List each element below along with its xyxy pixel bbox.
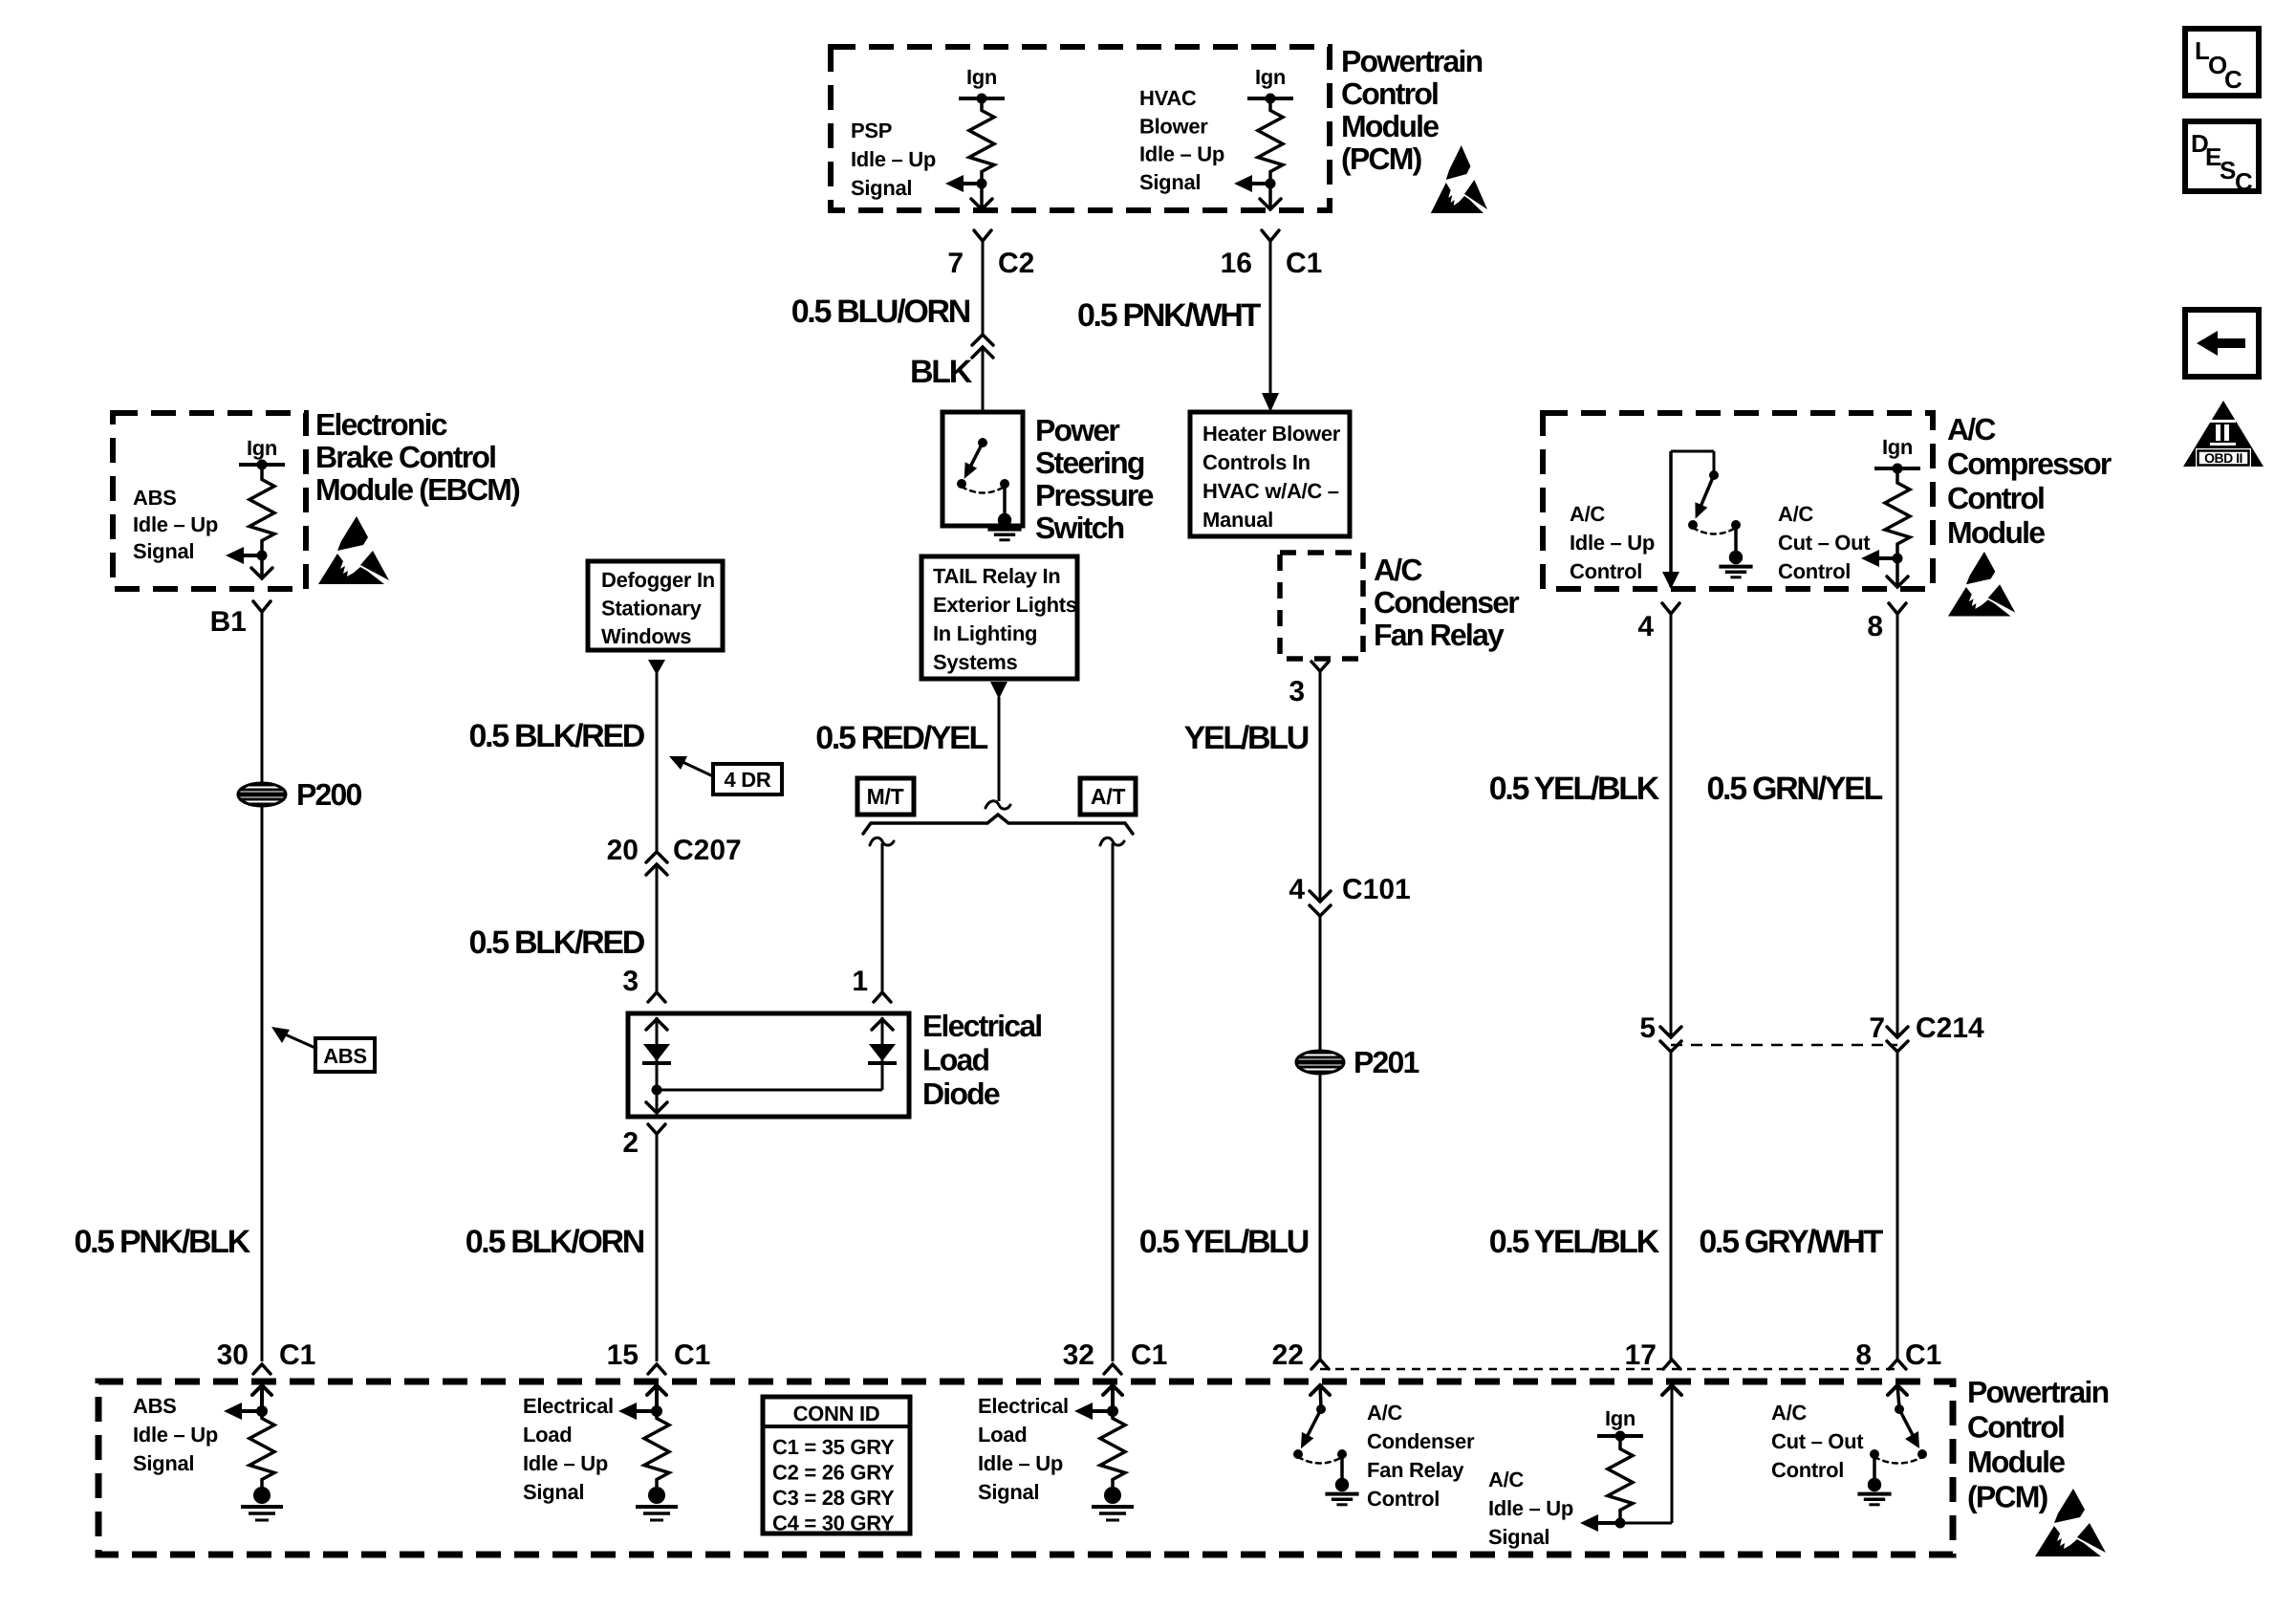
svg-text:Diode: Diode	[922, 1077, 1000, 1111]
svg-text:OBD II: OBD II	[2204, 450, 2242, 466]
svg-text:30: 30	[217, 1339, 249, 1371]
svg-text:8: 8	[1855, 1339, 1872, 1371]
svg-text:Load: Load	[978, 1423, 1027, 1447]
svg-text:3: 3	[622, 966, 639, 997]
svg-text:Blower: Blower	[1139, 114, 1208, 138]
svg-text:Controls In: Controls In	[1202, 450, 1310, 474]
svg-text:Idle – Up: Idle – Up	[133, 512, 218, 536]
svg-text:22: 22	[1272, 1339, 1304, 1371]
svg-text:(PCM): (PCM)	[1967, 1480, 2048, 1514]
svg-text:0.5 YEL/BLK: 0.5 YEL/BLK	[1489, 771, 1660, 807]
svg-text:A/C: A/C	[1374, 553, 1422, 587]
svg-text:Ign: Ign	[966, 65, 997, 89]
svg-text:15: 15	[607, 1339, 639, 1371]
svg-text:Cut – Out: Cut – Out	[1771, 1429, 1864, 1453]
svg-text:C1 = 35 GRY: C1 = 35 GRY	[772, 1435, 895, 1459]
svg-text:Signal: Signal	[133, 539, 194, 563]
svg-text:TAIL Relay In: TAIL Relay In	[933, 564, 1060, 588]
svg-text:C3 = 28 GRY: C3 = 28 GRY	[772, 1486, 895, 1510]
svg-text:Signal: Signal	[978, 1480, 1039, 1504]
svg-text:C1: C1	[279, 1339, 315, 1371]
svg-text:Signal: Signal	[1139, 170, 1201, 194]
svg-text:C101: C101	[1342, 874, 1411, 905]
svg-text:0.5 GRN/YEL: 0.5 GRN/YEL	[1706, 771, 1882, 807]
svg-text:Control: Control	[1947, 481, 2044, 515]
svg-text:Ign: Ign	[247, 436, 277, 460]
svg-text:Powertrain: Powertrain	[1341, 44, 1483, 78]
svg-text:Electrical: Electrical	[523, 1394, 614, 1418]
svg-text:Module (EBCM): Module (EBCM)	[315, 472, 520, 507]
svg-text:Manual: Manual	[1202, 508, 1273, 532]
svg-text:Fan Relay: Fan Relay	[1367, 1458, 1464, 1482]
svg-text:Brake Control: Brake Control	[315, 440, 495, 474]
svg-text:8: 8	[1867, 611, 1883, 642]
svg-text:0.5 BLK/RED: 0.5 BLK/RED	[468, 718, 644, 754]
svg-text:Compressor: Compressor	[1947, 446, 2112, 481]
svg-text:C2 = 26 GRY: C2 = 26 GRY	[772, 1461, 895, 1485]
svg-text:A/C: A/C	[1947, 412, 1996, 446]
svg-text:BLK: BLK	[910, 354, 973, 390]
svg-text:4: 4	[1289, 874, 1305, 905]
svg-text:Idle – Up: Idle – Up	[1488, 1496, 1573, 1520]
svg-text:C: C	[2224, 65, 2242, 94]
svg-text:4: 4	[1637, 611, 1654, 642]
svg-text:Load: Load	[922, 1043, 988, 1077]
svg-text:Idle – Up: Idle – Up	[523, 1451, 608, 1475]
svg-text:A/C: A/C	[1771, 1401, 1807, 1425]
svg-text:Load: Load	[523, 1423, 572, 1447]
svg-text:7: 7	[947, 248, 964, 279]
svg-text:ABS: ABS	[133, 486, 177, 510]
svg-text:Ign: Ign	[1605, 1406, 1635, 1430]
svg-text:HVAC w/A/C –: HVAC w/A/C –	[1202, 479, 1339, 503]
svg-text:0.5 YEL/BLU: 0.5 YEL/BLU	[1139, 1224, 1309, 1260]
svg-text:Ign: Ign	[1882, 435, 1913, 459]
svg-text:B1: B1	[210, 606, 247, 638]
svg-text:Control: Control	[1778, 559, 1851, 583]
svg-text:16: 16	[1221, 248, 1252, 279]
svg-text:PSP: PSP	[851, 119, 892, 142]
svg-text:(PCM): (PCM)	[1341, 141, 1422, 176]
svg-text:Power: Power	[1035, 413, 1119, 447]
svg-text:Control: Control	[1771, 1458, 1844, 1482]
svg-text:Idle – Up: Idle – Up	[1570, 531, 1655, 555]
svg-text:A/C: A/C	[1778, 502, 1813, 526]
svg-text:C: C	[2235, 167, 2253, 196]
svg-text:Stationary: Stationary	[601, 597, 703, 620]
svg-text:0.5 BLK/RED: 0.5 BLK/RED	[468, 925, 644, 961]
svg-text:A/T: A/T	[1091, 784, 1125, 809]
svg-text:P200: P200	[296, 777, 362, 812]
svg-text:Pressure: Pressure	[1035, 478, 1154, 512]
svg-text:Signal: Signal	[851, 176, 912, 200]
svg-text:Module: Module	[1947, 515, 2045, 550]
svg-text:Fan Relay: Fan Relay	[1374, 618, 1505, 652]
svg-text:Ign: Ign	[1255, 65, 1286, 89]
svg-text:Control: Control	[1570, 559, 1642, 583]
svg-text:C1: C1	[1131, 1339, 1167, 1371]
svg-text:0.5 PNK/BLK: 0.5 PNK/BLK	[74, 1224, 250, 1260]
svg-text:0.5 BLK/ORN: 0.5 BLK/ORN	[466, 1224, 644, 1260]
svg-text:2: 2	[622, 1127, 639, 1159]
svg-text:ABS: ABS	[133, 1394, 177, 1418]
svg-text:Module: Module	[1967, 1445, 2065, 1479]
svg-text:C2: C2	[998, 248, 1034, 279]
svg-text:0.5 BLU/ORN: 0.5 BLU/ORN	[791, 294, 970, 330]
svg-text:ABS: ABS	[323, 1044, 367, 1068]
svg-text:0.5 GRY/WHT: 0.5 GRY/WHT	[1699, 1224, 1883, 1260]
svg-text:0.5 YEL/BLK: 0.5 YEL/BLK	[1489, 1224, 1660, 1260]
svg-text:Module: Module	[1341, 109, 1439, 143]
svg-text:HVAC: HVAC	[1139, 86, 1197, 110]
svg-text:Heater Blower: Heater Blower	[1202, 422, 1341, 446]
svg-text:C1: C1	[1286, 248, 1322, 279]
svg-text:C214: C214	[1916, 1012, 1984, 1044]
svg-text:17: 17	[1625, 1339, 1657, 1371]
svg-text:Signal: Signal	[133, 1451, 194, 1475]
svg-text:YEL/BLU: YEL/BLU	[1184, 720, 1309, 756]
svg-text:Idle – Up: Idle – Up	[851, 147, 936, 171]
svg-text:1: 1	[852, 966, 868, 997]
svg-text:In Lighting: In Lighting	[933, 621, 1037, 645]
svg-text:0.5 RED/YEL: 0.5 RED/YEL	[815, 720, 987, 756]
svg-text:Electrical: Electrical	[922, 1009, 1041, 1043]
svg-text:C207: C207	[673, 835, 742, 866]
svg-text:Idle – Up: Idle – Up	[1139, 142, 1224, 166]
svg-text:Powertrain: Powertrain	[1967, 1375, 2109, 1409]
svg-text:C4 = 30 GRY: C4 = 30 GRY	[772, 1512, 895, 1535]
svg-text:Electronic: Electronic	[315, 407, 447, 442]
svg-text:5: 5	[1639, 1012, 1656, 1044]
svg-text:P201: P201	[1354, 1045, 1419, 1079]
svg-text:Steering: Steering	[1035, 446, 1144, 480]
svg-text:20: 20	[607, 835, 639, 866]
svg-text:Signal: Signal	[523, 1480, 584, 1504]
svg-text:Defogger In: Defogger In	[601, 568, 715, 592]
svg-text:Control: Control	[1341, 76, 1438, 111]
svg-text:Idle – Up: Idle – Up	[133, 1423, 218, 1447]
svg-text:Condenser: Condenser	[1374, 585, 1519, 620]
svg-text:A/C: A/C	[1367, 1401, 1402, 1425]
svg-text:Condenser: Condenser	[1367, 1429, 1475, 1453]
svg-text:7: 7	[1869, 1012, 1885, 1044]
svg-text:Exterior Lights: Exterior Lights	[933, 593, 1077, 617]
svg-text:M/T: M/T	[867, 784, 904, 809]
svg-text:C1: C1	[1905, 1339, 1941, 1371]
svg-text:0.5 PNK/WHT: 0.5 PNK/WHT	[1077, 297, 1262, 334]
svg-text:Signal: Signal	[1488, 1525, 1549, 1549]
svg-text:C1: C1	[674, 1339, 710, 1371]
svg-text:CONN ID: CONN ID	[793, 1402, 880, 1425]
svg-text:Idle – Up: Idle – Up	[978, 1451, 1063, 1475]
svg-text:4 DR: 4 DR	[725, 768, 771, 792]
svg-text:3: 3	[1289, 676, 1305, 707]
svg-text:Cut – Out: Cut – Out	[1778, 531, 1871, 555]
svg-text:Electrical: Electrical	[978, 1394, 1069, 1418]
svg-text:Switch: Switch	[1035, 511, 1124, 545]
svg-text:Control: Control	[1967, 1410, 2064, 1445]
svg-text:Systems: Systems	[933, 650, 1017, 674]
svg-text:Windows: Windows	[601, 624, 691, 648]
svg-text:A/C: A/C	[1570, 502, 1605, 526]
svg-text:A/C: A/C	[1488, 1468, 1524, 1491]
svg-text:Control: Control	[1367, 1487, 1440, 1511]
svg-text:S: S	[2220, 156, 2236, 185]
svg-text:32: 32	[1063, 1339, 1094, 1371]
